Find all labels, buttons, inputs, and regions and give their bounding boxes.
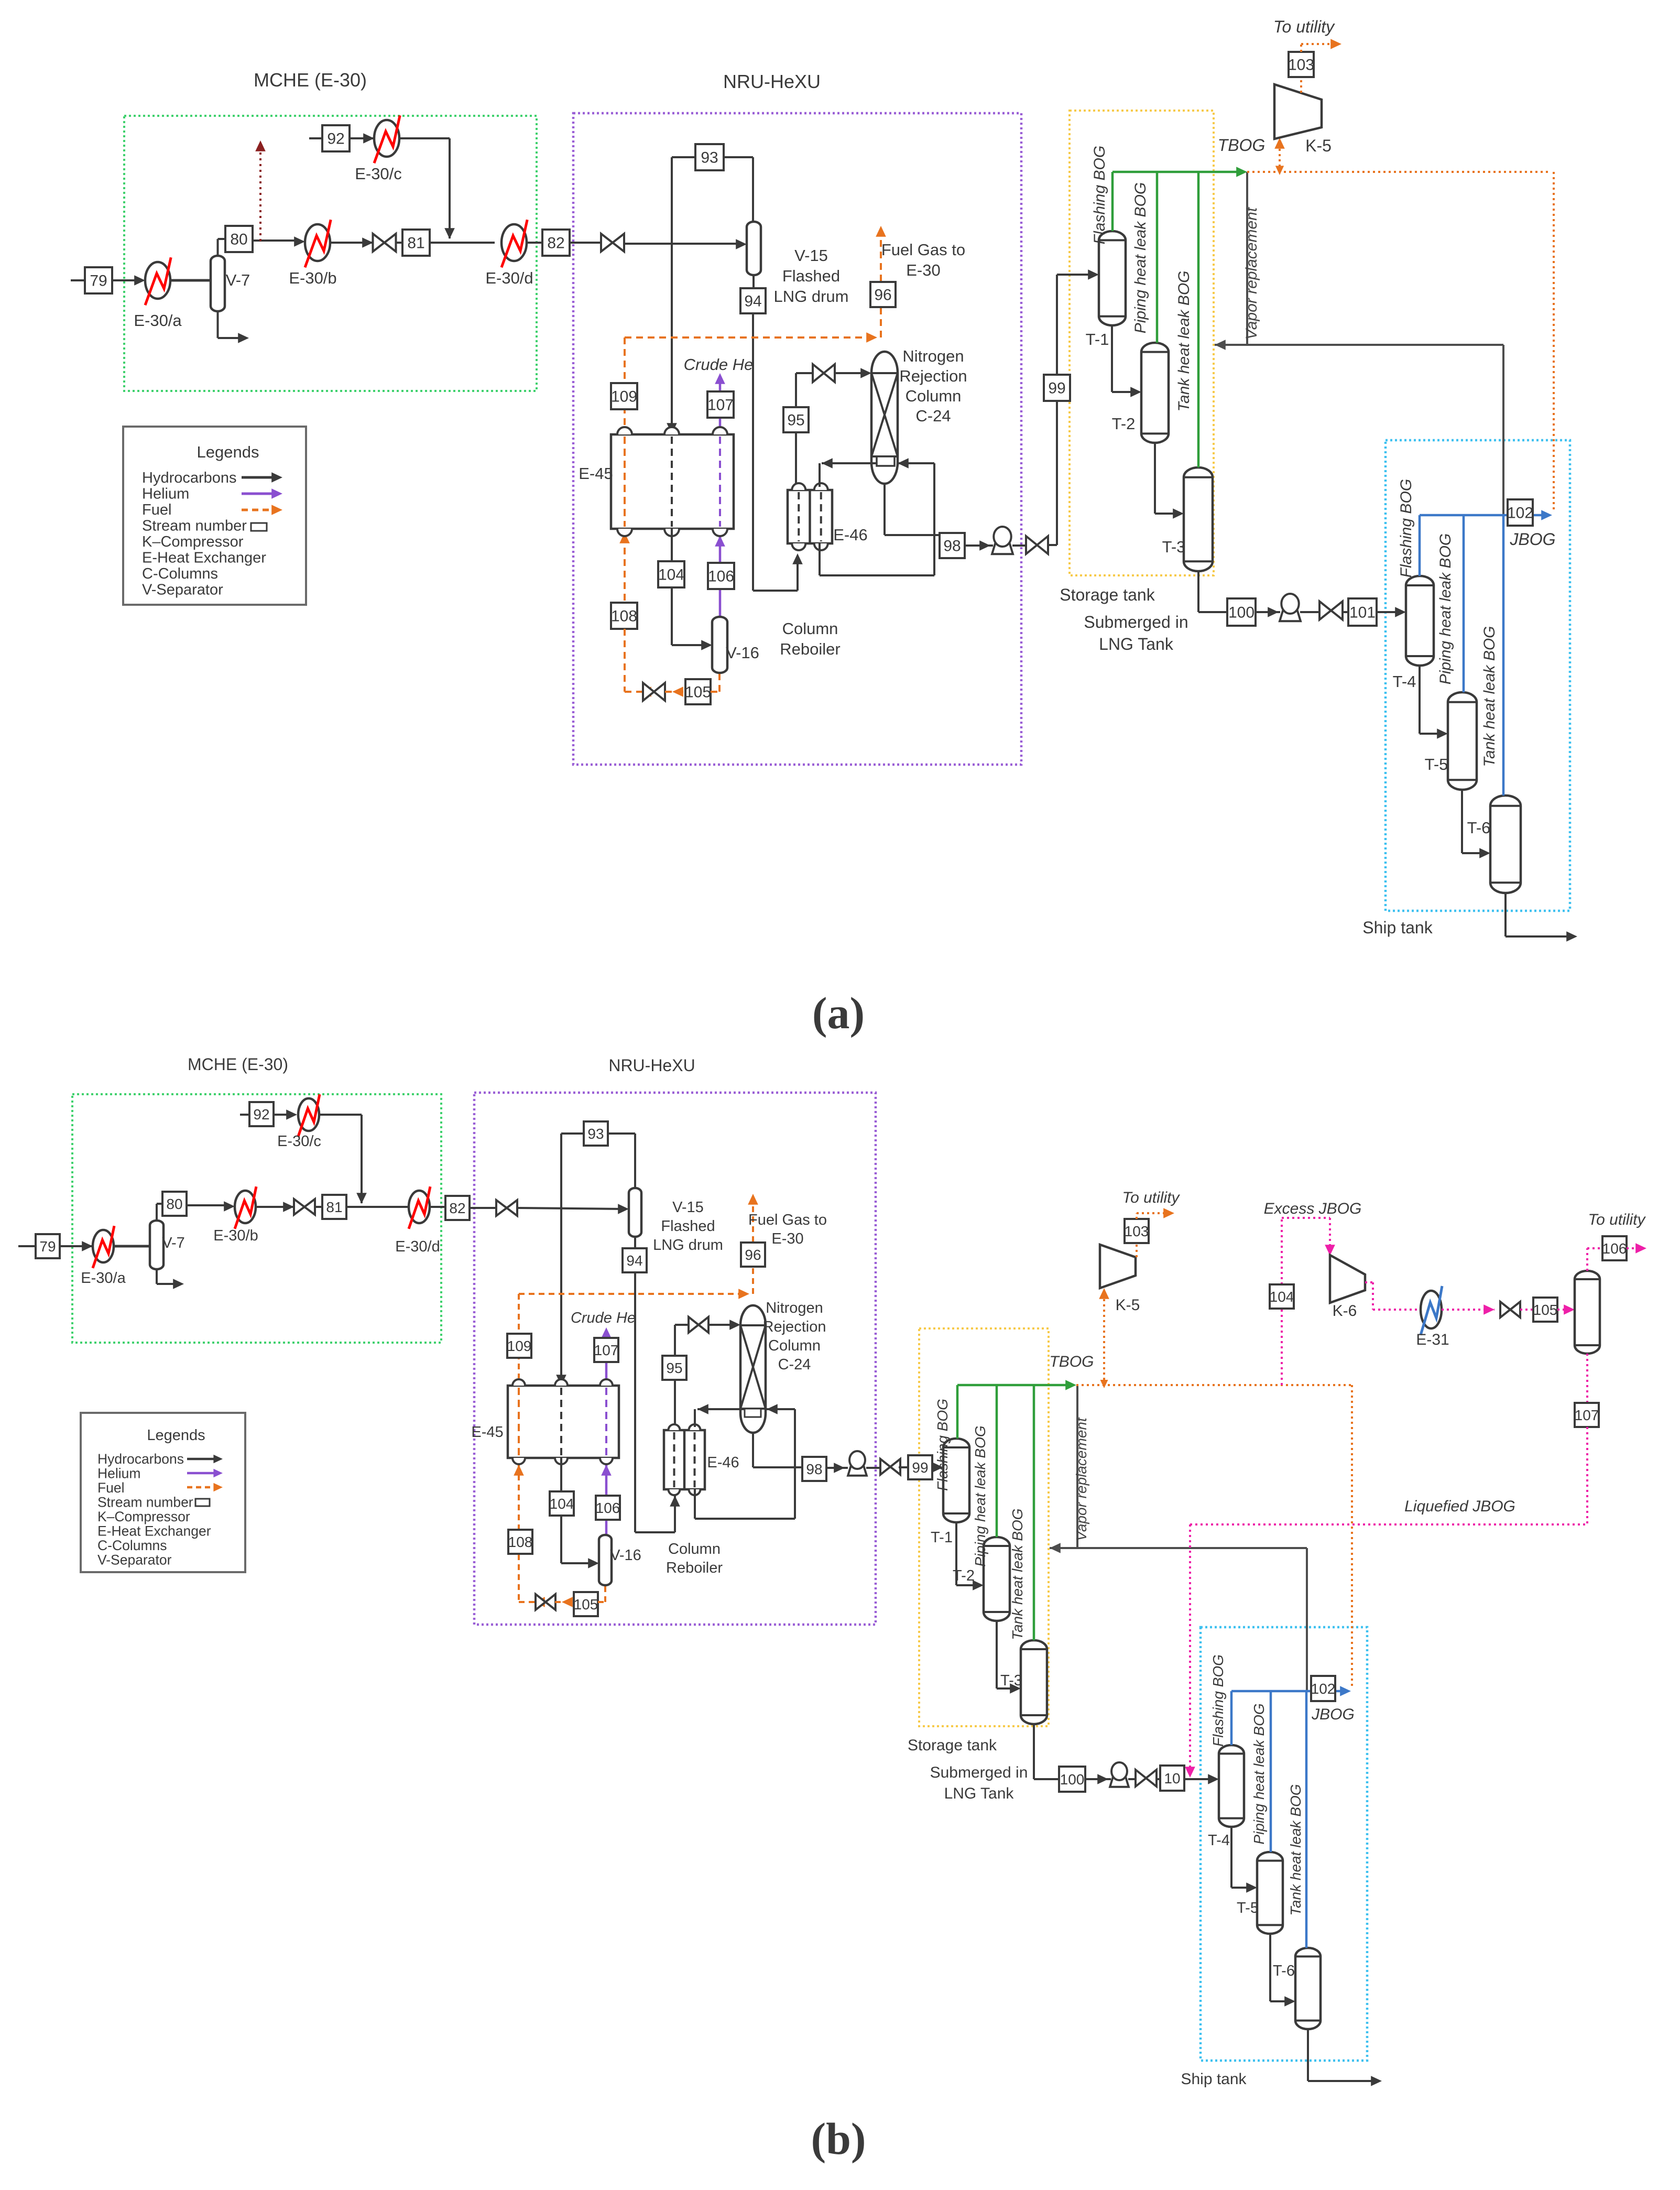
svg-text:E-46: E-46 <box>707 1454 739 1471</box>
svg-text:92: 92 <box>253 1106 269 1123</box>
svg-text:Ship tank: Ship tank <box>1181 2071 1247 2088</box>
svg-text:(a): (a) <box>812 988 865 1038</box>
svg-text:106: 106 <box>596 1500 620 1516</box>
svg-text:Vapor replacement: Vapor replacement <box>1243 206 1260 340</box>
svg-text:V-16: V-16 <box>610 1547 641 1564</box>
svg-text:Flashing BOG: Flashing BOG <box>1210 1654 1226 1747</box>
svg-text:T-4: T-4 <box>1393 672 1416 691</box>
svg-text:C-Columns: C-Columns <box>97 1538 167 1553</box>
svg-text:94: 94 <box>626 1252 642 1269</box>
svg-text:To utility: To utility <box>1122 1189 1181 1206</box>
svg-text:82: 82 <box>449 1200 465 1216</box>
svg-text:108: 108 <box>508 1534 533 1550</box>
svg-text:104: 104 <box>1270 1289 1294 1305</box>
svg-text:Piping heat leak BOG: Piping heat leak BOG <box>1251 1703 1267 1844</box>
svg-text:E-30/c: E-30/c <box>277 1133 321 1150</box>
svg-text:104: 104 <box>658 566 684 584</box>
svg-text:Crude He: Crude He <box>684 355 754 374</box>
svg-text:109: 109 <box>611 388 637 406</box>
svg-text:98: 98 <box>806 1461 822 1477</box>
svg-text:107: 107 <box>707 397 734 414</box>
svg-text:Helium: Helium <box>142 486 189 503</box>
svg-text:81: 81 <box>326 1199 342 1215</box>
svg-text:MCHE (E-30): MCHE (E-30) <box>188 1055 288 1074</box>
svg-text:79: 79 <box>39 1238 56 1255</box>
svg-text:Hydrocarbons: Hydrocarbons <box>97 1451 184 1467</box>
svg-text:T-2: T-2 <box>1112 415 1136 433</box>
svg-text:Column: Column <box>768 1337 821 1354</box>
svg-text:107: 107 <box>1575 1407 1599 1423</box>
svg-text:V-15: V-15 <box>672 1199 704 1216</box>
svg-text:98: 98 <box>943 538 961 555</box>
svg-text:Tank heat leak BOG: Tank heat leak BOG <box>1175 270 1193 411</box>
svg-text:Hydrocarbons: Hydrocarbons <box>142 470 237 486</box>
svg-text:Fuel Gas to: Fuel Gas to <box>881 241 965 259</box>
svg-text:79: 79 <box>90 273 107 290</box>
svg-text:Column: Column <box>906 387 962 405</box>
svg-text:E-30/a: E-30/a <box>134 311 182 330</box>
svg-text:V-Separator: V-Separator <box>97 1552 172 1568</box>
svg-text:Helium: Helium <box>97 1466 140 1481</box>
svg-text:105: 105 <box>1533 1302 1558 1318</box>
svg-text:Storage tank: Storage tank <box>908 1737 997 1754</box>
svg-text:V-16: V-16 <box>726 644 759 662</box>
svg-text:Storage tank: Storage tank <box>1060 585 1155 604</box>
svg-text:To utility: To utility <box>1273 17 1335 36</box>
svg-text:Tank heat leak BOG: Tank heat leak BOG <box>1009 1508 1026 1640</box>
svg-text:V-7: V-7 <box>162 1235 185 1251</box>
svg-text:100: 100 <box>1228 604 1254 622</box>
svg-text:E-30/b: E-30/b <box>213 1227 258 1244</box>
svg-text:TBOG: TBOG <box>1218 136 1266 155</box>
svg-text:Column: Column <box>782 619 838 638</box>
svg-text:NRU-HeXU: NRU-HeXU <box>608 1056 695 1075</box>
svg-text:Fuel Gas to: Fuel Gas to <box>748 1212 827 1228</box>
svg-text:Piping heat leak BOG: Piping heat leak BOG <box>1437 533 1454 685</box>
svg-text:99: 99 <box>1048 380 1065 397</box>
svg-text:Flashed: Flashed <box>782 267 840 285</box>
svg-text:81: 81 <box>407 235 424 252</box>
svg-text:E-30: E-30 <box>906 261 940 279</box>
svg-text:102: 102 <box>1507 505 1533 522</box>
svg-text:95: 95 <box>787 412 804 429</box>
svg-text:100: 100 <box>1060 1771 1085 1788</box>
svg-text:C-Columns: C-Columns <box>142 565 218 582</box>
svg-text:Liquefied JBOG: Liquefied JBOG <box>1404 1498 1515 1515</box>
svg-text:E-45: E-45 <box>579 464 613 483</box>
svg-text:LNG drum: LNG drum <box>774 287 849 306</box>
svg-text:106: 106 <box>708 568 734 585</box>
svg-text:Flashing BOG: Flashing BOG <box>1398 479 1415 578</box>
svg-text:Tank heat leak BOG: Tank heat leak BOG <box>1481 626 1498 767</box>
svg-text:K–Compressor: K–Compressor <box>97 1509 190 1524</box>
svg-text:(b): (b) <box>811 2113 866 2164</box>
svg-text:LNG Tank: LNG Tank <box>1099 635 1174 653</box>
svg-text:102: 102 <box>1311 1681 1336 1697</box>
svg-text:T-5: T-5 <box>1237 1900 1259 1916</box>
svg-text:105: 105 <box>574 1596 598 1612</box>
svg-text:107: 107 <box>594 1342 619 1358</box>
svg-text:E-31: E-31 <box>1416 1331 1449 1348</box>
svg-text:Flashing BOG: Flashing BOG <box>1091 146 1108 244</box>
svg-text:Legends: Legends <box>197 443 259 461</box>
svg-text:108: 108 <box>611 608 637 625</box>
svg-text:Tank heat leak BOG: Tank heat leak BOG <box>1288 1784 1304 1915</box>
svg-text:K-5: K-5 <box>1116 1296 1140 1314</box>
svg-text:To utility: To utility <box>1588 1211 1646 1228</box>
svg-text:96: 96 <box>745 1247 761 1263</box>
svg-text:V-15: V-15 <box>794 246 828 265</box>
svg-text:Flashing BOG: Flashing BOG <box>934 1399 951 1491</box>
svg-text:Ship tank: Ship tank <box>1362 918 1433 937</box>
svg-text:T-6: T-6 <box>1273 1963 1295 1979</box>
svg-text:Nitrogen: Nitrogen <box>766 1300 823 1316</box>
svg-text:JBOG: JBOG <box>1509 530 1555 549</box>
svg-text:Reboiler: Reboiler <box>666 1560 723 1576</box>
svg-text:Stream number: Stream number <box>142 518 247 535</box>
svg-text:Rejection: Rejection <box>899 367 967 385</box>
svg-text:E-30: E-30 <box>771 1230 803 1247</box>
svg-text:95: 95 <box>666 1360 682 1376</box>
svg-text:C-24: C-24 <box>915 407 951 425</box>
svg-text:92: 92 <box>327 130 344 148</box>
svg-text:Stream number: Stream number <box>97 1495 193 1510</box>
svg-text:T-5: T-5 <box>1425 755 1448 773</box>
svg-text:94: 94 <box>744 293 761 310</box>
svg-text:V-7: V-7 <box>226 271 250 289</box>
svg-text:E-30/a: E-30/a <box>81 1270 126 1287</box>
svg-text:Submerged in: Submerged in <box>1084 613 1188 631</box>
svg-text:E-30/b: E-30/b <box>289 269 336 287</box>
svg-text:T-1: T-1 <box>931 1529 953 1546</box>
svg-text:K–Compressor: K–Compressor <box>142 533 244 550</box>
svg-text:MCHE (E-30): MCHE (E-30) <box>254 69 367 91</box>
svg-text:V-Separator: V-Separator <box>142 582 223 598</box>
svg-text:109: 109 <box>507 1338 532 1354</box>
svg-text:96: 96 <box>874 287 891 304</box>
svg-text:T-4: T-4 <box>1208 1832 1230 1849</box>
svg-text:Fuel: Fuel <box>142 502 171 518</box>
svg-text:Crude He: Crude He <box>571 1310 636 1326</box>
svg-text:E-30/d: E-30/d <box>485 269 533 287</box>
svg-text:80: 80 <box>230 231 247 248</box>
svg-text:E-46: E-46 <box>833 526 867 544</box>
svg-text:Nitrogen: Nitrogen <box>902 347 964 365</box>
svg-text:T-3: T-3 <box>1162 538 1186 556</box>
svg-text:E-Heat Exchanger: E-Heat Exchanger <box>97 1523 211 1539</box>
svg-text:104: 104 <box>550 1496 574 1512</box>
svg-text:103: 103 <box>1288 57 1314 74</box>
svg-text:Legends: Legends <box>147 1427 205 1444</box>
svg-text:Fuel: Fuel <box>97 1480 125 1496</box>
svg-text:E-30/c: E-30/c <box>355 165 402 183</box>
svg-text:93: 93 <box>701 149 718 167</box>
svg-text:TBOG: TBOG <box>1049 1353 1094 1370</box>
svg-text:101: 101 <box>1349 604 1376 622</box>
svg-text:K-6: K-6 <box>1333 1302 1357 1320</box>
svg-text:105: 105 <box>685 684 711 701</box>
svg-text:K-5: K-5 <box>1305 136 1332 155</box>
svg-text:Reboiler: Reboiler <box>780 640 840 658</box>
svg-text:LNG drum: LNG drum <box>653 1237 723 1254</box>
svg-text:E-Heat Exchanger: E-Heat Exchanger <box>142 550 266 566</box>
svg-text:C-24: C-24 <box>778 1356 811 1373</box>
svg-text:Column: Column <box>668 1541 721 1557</box>
svg-text:Rejection: Rejection <box>763 1319 826 1335</box>
svg-text:LNG Tank: LNG Tank <box>944 1785 1014 1802</box>
svg-text:93: 93 <box>587 1126 604 1142</box>
svg-text:99: 99 <box>912 1459 928 1476</box>
svg-text:E-30/d: E-30/d <box>395 1238 440 1255</box>
svg-text:106: 106 <box>1602 1240 1627 1257</box>
svg-text:Vapor replacement: Vapor replacement <box>1073 1417 1089 1541</box>
svg-text:10: 10 <box>1164 1770 1180 1786</box>
svg-text:Submerged in: Submerged in <box>930 1764 1028 1781</box>
svg-text:82: 82 <box>547 235 564 252</box>
svg-text:Excess JBOG: Excess JBOG <box>1264 1200 1362 1217</box>
svg-text:JBOG: JBOG <box>1311 1706 1355 1723</box>
svg-text:103: 103 <box>1125 1223 1149 1239</box>
svg-text:T-6: T-6 <box>1467 819 1491 837</box>
svg-text:Piping heat leak BOG: Piping heat leak BOG <box>1132 182 1149 334</box>
svg-text:E-45: E-45 <box>471 1424 503 1441</box>
svg-text:Flashed: Flashed <box>661 1218 715 1235</box>
svg-text:T-1: T-1 <box>1086 330 1109 348</box>
svg-text:80: 80 <box>166 1196 182 1212</box>
svg-text:NRU-HeXU: NRU-HeXU <box>723 71 821 92</box>
svg-text:Piping heat leak BOG: Piping heat leak BOG <box>972 1425 988 1566</box>
